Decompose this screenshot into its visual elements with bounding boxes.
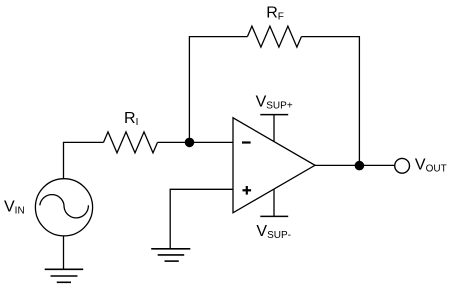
svg-text:VOUT: VOUT <box>415 157 447 175</box>
wire non-inverting input to ground <box>170 189 233 248</box>
svg-text:RF: RF <box>266 4 284 22</box>
resistor RI <box>104 110 158 153</box>
wire feedback right: top rail down to output node <box>301 37 359 166</box>
wire VIN bottom to ground <box>63 236 65 269</box>
terminal VOUT <box>395 157 447 175</box>
negative supply VSUP- <box>256 189 291 241</box>
svg-text:VSUP-: VSUP- <box>256 223 291 241</box>
ground (op-amp + input) <box>151 249 190 261</box>
wire op-amp output to VOUT terminal <box>315 164 395 166</box>
op-amp U1 <box>233 118 315 213</box>
svg-text:VSUP+: VSUP+ <box>256 94 293 112</box>
svg-text:RI: RI <box>124 110 138 128</box>
wire feedback left: node up to top rail <box>189 37 247 143</box>
node junction dot at inverting input <box>185 138 195 148</box>
wire RI to op-amp inverting input <box>158 141 234 143</box>
wire VIN top to resistor RI <box>64 142 104 178</box>
AC voltage source VIN <box>4 179 93 236</box>
node junction dot at output <box>355 161 365 171</box>
positive supply VSUP+ <box>256 94 293 142</box>
resistor RF <box>247 4 301 47</box>
svg-text:VIN: VIN <box>4 198 25 216</box>
ground (VIN) <box>45 269 83 282</box>
